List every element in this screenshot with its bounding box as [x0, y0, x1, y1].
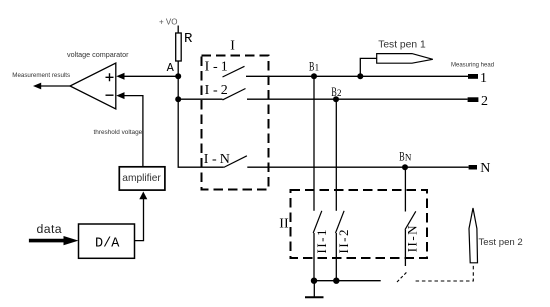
- wire line N (measuring line N): [247, 166, 468, 168]
- D/A converter box: [79, 224, 135, 258]
- wire BN drop (upper): [404, 167, 406, 211]
- wire threshold voltage to - input: [124, 96, 143, 167]
- op-amp U1 voltage comparator: [70, 63, 116, 109]
- junction node on bus (I-2 feed): [175, 96, 181, 102]
- label B1: [309, 59, 319, 74]
- svg-text:N: N: [405, 152, 412, 162]
- wire B2 drop (upper): [335, 99, 337, 211]
- wire line 1 (measuring line 1): [246, 75, 468, 77]
- dashed wire to test pen 2: [416, 264, 474, 281]
- terminal 1: [468, 74, 478, 79]
- switch I-1 blade: [223, 66, 245, 77]
- svg-text:2: 2: [337, 88, 342, 98]
- svg-text:A: A: [167, 61, 175, 75]
- wire B1 drop (lower): [313, 233, 315, 281]
- svg-text:II-1: II-1: [314, 228, 329, 254]
- switch I-N blade: [224, 156, 247, 168]
- svg-text:1: 1: [315, 63, 320, 73]
- dashed switch blade to test pen 2: [397, 272, 407, 282]
- svg-text:data: data: [37, 222, 63, 236]
- switch II-1 blade: [313, 211, 322, 233]
- wire bus from node A down to I-N feed: [178, 76, 224, 167]
- svg-text:2: 2: [481, 94, 488, 109]
- wire B1 drop (upper): [313, 76, 315, 211]
- switch II-2 blade: [336, 211, 345, 233]
- test pen 2: [469, 208, 478, 263]
- arrow into + input: [116, 73, 124, 80]
- svg-text:II-N: II-N: [404, 224, 419, 252]
- svg-text:D/A: D/A: [95, 237, 120, 252]
- svg-text:amplifier: amplifier: [122, 173, 161, 184]
- node B1: [311, 73, 317, 79]
- svg-text:Test pen 1: Test pen 1: [378, 39, 426, 50]
- arrow into - input: [116, 92, 124, 99]
- svg-text:threshold voltage: threshold voltage: [94, 129, 143, 136]
- terminal N: [469, 165, 477, 170]
- node B2: [333, 96, 339, 102]
- svg-text:II: II: [279, 216, 289, 231]
- label B2: [331, 84, 341, 99]
- switch II-N blade: [405, 211, 416, 229]
- bottom ground bus wire: [314, 280, 381, 282]
- ground: [305, 281, 324, 298]
- svg-text:Test pen 2: Test pen 2: [479, 237, 523, 248]
- svg-text:II-2: II-2: [336, 228, 351, 254]
- wire B2 drop (lower): [335, 233, 337, 281]
- svg-text:N: N: [480, 161, 490, 176]
- test pen 1: [357, 54, 433, 80]
- svg-text:I-2: I-2: [205, 83, 228, 98]
- dashed box I: [202, 56, 269, 190]
- power +VO: [159, 17, 178, 33]
- node A junction: [175, 73, 181, 79]
- svg-text:1: 1: [480, 71, 487, 86]
- label BN: [399, 148, 412, 163]
- svg-text:+ VO: + VO: [159, 17, 177, 26]
- svg-text:R: R: [184, 31, 193, 47]
- junction bottom B1: [311, 278, 317, 284]
- output wire with arrow: [33, 83, 70, 90]
- junction bottom B2: [333, 278, 339, 284]
- wire node A to + input: [124, 75, 179, 77]
- svg-text:voltage comparator: voltage comparator: [67, 50, 129, 59]
- svg-text:I: I: [230, 39, 235, 54]
- resistor R: [176, 33, 182, 76]
- svg-text:Measuring head: Measuring head: [451, 63, 494, 69]
- wire D/A output to amplifier with up arrow: [135, 192, 148, 241]
- dashed box II: [291, 190, 428, 258]
- data input arrow: [29, 236, 79, 245]
- wire line 2 (measuring line 2): [247, 98, 468, 100]
- wire node 2 to switch I-2: [178, 98, 222, 100]
- switch I-2 blade: [223, 89, 246, 100]
- svg-text:I-1: I-1: [205, 60, 228, 75]
- wire BN drop (lower stub): [404, 230, 406, 266]
- amplifier box: [119, 167, 165, 190]
- terminal 2: [468, 97, 479, 102]
- svg-text:Measurement results: Measurement results: [12, 72, 70, 79]
- node BN: [402, 164, 408, 170]
